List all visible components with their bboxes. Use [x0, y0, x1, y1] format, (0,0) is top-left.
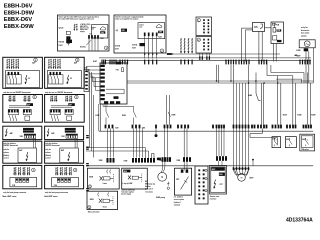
X2M labels on upper strip: [115, 127, 145, 129]
option column 2 box: digital IO PCB: [45, 57, 85, 88]
svg-text:K2M: K2M: [297, 115, 301, 117]
indoor unit sub-box in note box 2: [138, 23, 165, 39]
svg-text:X107A: X107A: [58, 41, 64, 44]
option box: wireless thermostat: [3, 141, 42, 163]
booster pump box M2P: [299, 40, 315, 48]
svg-text:N-wire: N-wire: [103, 206, 107, 208]
bus to distribution verticals: [217, 65, 249, 83]
svg-text:Shut-off valve: Shut-off valve: [88, 211, 100, 214]
wires entering A1P from left: [87, 66, 101, 90]
svg-text:Q1LS: Q1LS: [59, 27, 64, 29]
A1P internal wires: [106, 89, 124, 99]
sensor drop wire with bulb: [155, 128, 158, 137]
terminal row X2M in note box 1: [88, 34, 104, 41]
supply wire pairs: [48, 59, 61, 70]
terminal row X2M in note box 2: [144, 33, 162, 39]
svg-text:1 2 3: 1 2 3: [89, 34, 92, 36]
right side stair wires: [267, 48, 313, 83]
wire pair into note box 1: [74, 24, 78, 31]
supply wire pairs: [6, 59, 19, 70]
terminal strip X5M vertical: [195, 166, 208, 204]
svg-text:E8BH-D6V: E8BH-D6V: [4, 4, 33, 10]
svg-text:Add UNIT name: Add UNIT name: [44, 195, 57, 198]
svg-text:M: M: [161, 177, 163, 179]
svg-text:(Q2L): (Q2L): [254, 26, 259, 28]
svg-text:volume: volume: [45, 152, 50, 154]
fuse on A1P: [116, 68, 124, 72]
wires from fuse box down to bus: [273, 44, 276, 62]
svg-text:L: L: [308, 140, 309, 142]
svg-text:X107A: X107A: [132, 43, 138, 46]
contact box E4H option: [300, 134, 315, 151]
lower routing wires: [86, 148, 313, 166]
option box: heat pump convector: [3, 165, 42, 188]
svg-text:E8BH-D9W: E8BH-D9W: [4, 10, 35, 16]
A1P edge connectors: [100, 62, 121, 104]
contact box K2M: [285, 137, 296, 148]
svg-text:X107: X107: [115, 49, 119, 51]
svg-text:E8BX-D6V: E8BX-D6V: [4, 17, 32, 23]
svg-text:4D133764A: 4D133764A: [286, 217, 313, 223]
K4M wire staircase to contact: [250, 129, 278, 146]
svg-text:X2M: X2M: [99, 160, 103, 162]
svg-text:A1P: A1P: [93, 60, 98, 63]
option box: X1M/X2M adapter: [3, 126, 42, 139]
connector labels X107A / X107 in note box 2: [115, 43, 145, 51]
pump M2P label with arrow: [294, 54, 301, 57]
relay K9R on pump wires: [167, 95, 177, 125]
note 2 marker: [160, 49, 164, 53]
terminal strip X2M upper: [105, 125, 312, 129]
DHW pump motor: [158, 172, 170, 189]
wires adapter to wireless box: [75, 138, 77, 148]
marker and PCB label: [32, 58, 37, 65]
long distribution wires: [99, 81, 313, 131]
inner terminal box with contacts: [6, 71, 40, 88]
svg-text:L: W1(L), 230V~: L: W1(L), 230V~: [80, 24, 91, 26]
option box: heat pump convector: [45, 165, 84, 188]
contactor K3M: [296, 48, 308, 52]
indoor unit sub-box in note box 1: [91, 25, 108, 38]
bus line L with inline arrow: [167, 53, 280, 55]
fuse box F1B: [271, 22, 284, 44]
svg-text:E8BX-D9W: E8BX-D9W: [4, 24, 34, 30]
svg-text:K9R: K9R: [172, 114, 176, 116]
main PCB A1P: [93, 60, 127, 104]
svg-text:M2S: M2S: [124, 171, 127, 173]
svg-text:supply: supply: [80, 31, 85, 33]
terminal strip box 2: [196, 37, 212, 54]
svg-text:K5M: K5M: [311, 115, 315, 117]
option box: wireless thermostat: [45, 141, 84, 163]
svg-text:(Daikin): (Daikin): [4, 155, 10, 157]
option box: thermostat wiring: [3, 95, 43, 123]
contactor K4M: [248, 73, 263, 125]
connector X107A in note box 1: [58, 40, 86, 49]
svg-text:R1T: R1T: [220, 184, 223, 186]
svg-text:only for: only for: [301, 27, 308, 29]
field terminal strip X2M left: [84, 68, 89, 92]
note 1 marker: [104, 46, 108, 50]
service interface box: [210, 166, 227, 195]
svg-text:hot water: hot water: [301, 32, 310, 35]
svg-text:X107: X107: [58, 45, 62, 47]
svg-text:R5T: R5T: [176, 179, 179, 181]
wires bus to contact box: [242, 28, 272, 62]
wires from note box 2 to bus: [144, 36, 158, 58]
motorised valve box 2: [122, 168, 148, 189]
contactor coil wires K1M: [278, 76, 288, 125]
svg-text:X2M: X2M: [124, 161, 128, 163]
bus wires top: [99, 58, 311, 61]
contactor coil wires K2M: [293, 76, 302, 125]
note box 1: unit with independent power supply: [58, 15, 110, 51]
wires adapter to wireless box: [33, 138, 35, 148]
svg-text:option: option: [301, 35, 308, 38]
svg-text:K6R: K6R: [122, 115, 126, 117]
wires strip to lower strip: [108, 128, 225, 172]
model list text: [4, 4, 35, 30]
svg-text:Main UNIT name: Main UNIT name: [3, 196, 17, 198]
contactor coil wires K5M: [308, 73, 316, 125]
option column 1 box: digital IO PCB: [3, 57, 43, 88]
svg-text:E08: E08: [219, 174, 222, 176]
svg-text:(Daikin): (Daikin): [45, 155, 51, 157]
pump M1P funnel and motor: [234, 159, 255, 181]
svg-text:X107A: X107A: [115, 44, 121, 47]
wires down left side to lower strip: [90, 72, 101, 158]
contact box Q2L: [253, 23, 265, 32]
inner terminal box with contacts: [47, 71, 81, 88]
svg-text:X107: X107: [132, 48, 136, 50]
relay feed wires from A1P bottom: [103, 104, 134, 107]
motorised valve box 1: [87, 168, 119, 189]
svg-text:X2M: X2M: [176, 160, 180, 162]
svg-text:1 way by DHW: 1 way by DHW: [122, 183, 132, 185]
option box: thermostat wiring: [45, 95, 85, 123]
junction dots: [216, 80, 279, 84]
shut-off valve box: [87, 191, 118, 209]
wire from strip boxes down to bus: [199, 53, 210, 60]
svg-text:Service user: Service user: [210, 196, 220, 198]
terminal strip X2M lower: [99, 156, 227, 162]
svg-text:M2P: M2P: [145, 181, 148, 183]
wires from note box 1 terminals: [89, 39, 98, 51]
svg-text:volume: volume: [4, 152, 9, 154]
option box: X1M/X2M adapter: [45, 126, 84, 139]
pump M1P wires: [233, 83, 250, 170]
relay K5R: [96, 106, 109, 124]
svg-text:domestic: domestic: [301, 29, 309, 32]
wires pump to bus: [306, 51, 309, 83]
field wiring bundle with arrows: [180, 38, 193, 54]
marker and PCB label: [74, 58, 79, 65]
contact box K1M: [272, 137, 281, 148]
svg-text:DHW pump: DHW pump: [156, 197, 165, 199]
field terminal ladder marks: [86, 135, 89, 191]
bus connector clusters: [101, 60, 310, 65]
relay K6R: [122, 106, 136, 124]
svg-text:M: M: [241, 178, 243, 180]
cable slash on note box 1 wires: [86, 40, 91, 45]
svg-text:(1-Ph, 230 V: (1-Ph, 230 V: [145, 189, 153, 191]
svg-text:K3M: K3M: [296, 50, 300, 52]
note box 2: power supplied from outdoor: [114, 15, 166, 53]
terminal strip box 1: [196, 17, 212, 36]
svg-text:K5R: K5R: [96, 115, 100, 117]
outdoor sensor box R5T: [175, 168, 192, 195]
svg-text:X107A: X107A: [80, 46, 86, 49]
svg-text:K1M: K1M: [283, 115, 287, 117]
